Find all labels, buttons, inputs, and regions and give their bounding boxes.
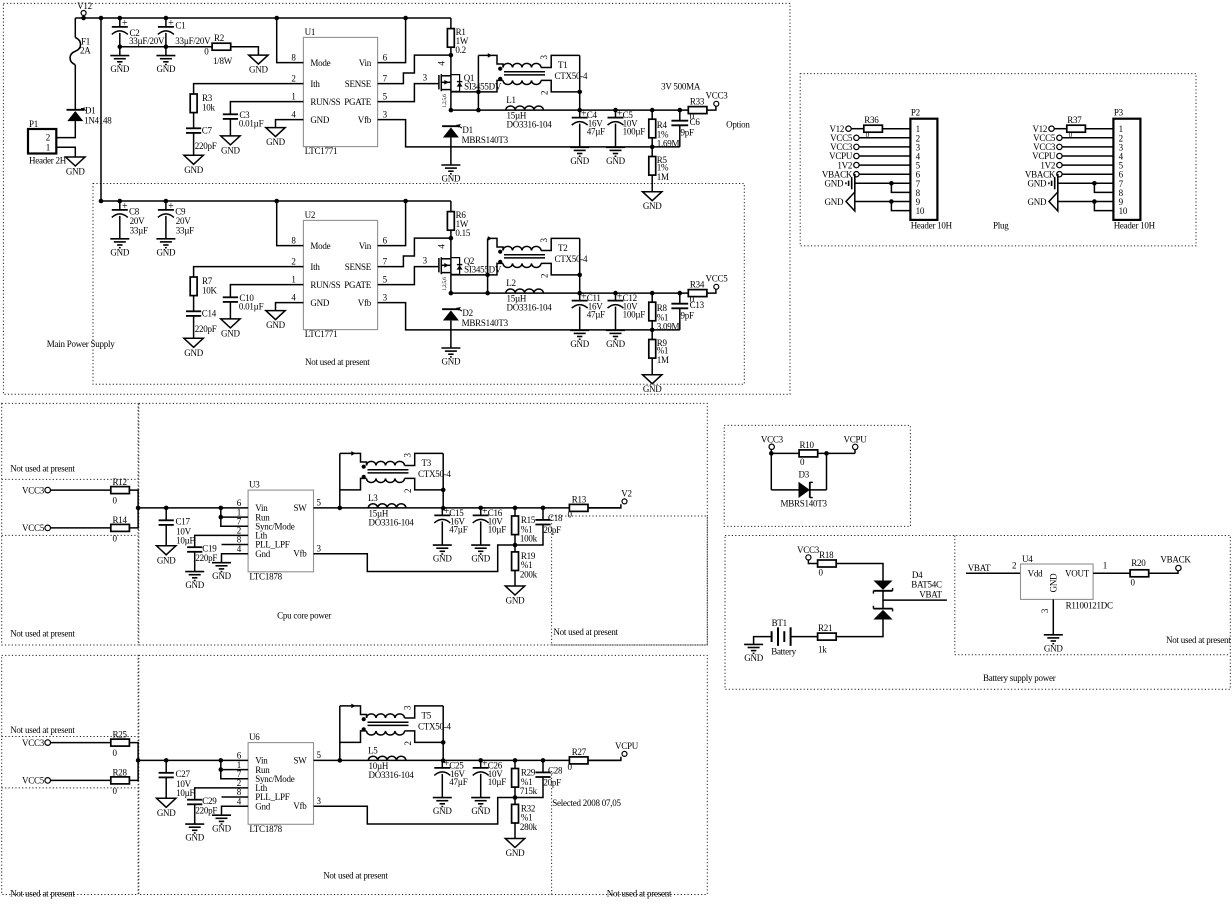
- svg-text:3: 3: [423, 73, 428, 83]
- wire C9 to ground: [165, 216, 167, 239]
- wire D4 common cathode node VBAT: [882, 591, 884, 609]
- capacitor C12: [613, 291, 618, 296]
- wire R10 to VCPU: [817, 452, 855, 454]
- wire GND pin to ground: [276, 303, 304, 311]
- ground under U6 Gnd pin: [212, 814, 231, 816]
- svg-text:GND: GND: [433, 806, 452, 816]
- svg-text:LTC1878: LTC1878: [249, 824, 282, 834]
- svg-text:R1100121DC: R1100121DC: [1066, 601, 1113, 611]
- wire R18 to D4: [836, 564, 883, 581]
- ground under C29: [185, 823, 204, 825]
- ground under battery: [744, 643, 763, 645]
- svg-text:R37: R37: [1067, 115, 1082, 125]
- svg-text:220pF: 220pF: [195, 806, 217, 816]
- svg-text:SENSE: SENSE: [345, 79, 372, 89]
- svg-text:10µF: 10µF: [488, 524, 506, 534]
- svg-text:GND: GND: [570, 339, 589, 349]
- svg-text:RUN/SS: RUN/SS: [310, 97, 340, 107]
- svg-text:LTC1771: LTC1771: [305, 146, 337, 156]
- svg-text:V12: V12: [77, 1, 92, 11]
- wire VCC5 to pin 2: [1062, 137, 1113, 139]
- svg-text:100k: 100k: [520, 533, 538, 543]
- wire battery to R21: [791, 636, 818, 638]
- resistor R10: [799, 450, 818, 457]
- svg-text:R25: R25: [113, 730, 128, 740]
- wire SW to output line: [314, 507, 621, 509]
- svg-text:47µF: 47µF: [449, 777, 467, 787]
- wire C4 to ground: [579, 124, 581, 147]
- transformer T2 core: [504, 254, 545, 256]
- transistor Q1 body stub with arrow: [441, 81, 451, 83]
- transformer T3 secondary left hook wire: [340, 478, 367, 490]
- svg-text:GND: GND: [221, 328, 240, 338]
- svg-text:0.01µF: 0.01µF: [239, 119, 264, 129]
- node VCC3 terminal at battery: [806, 555, 811, 560]
- wire C12 to ground: [615, 307, 617, 330]
- svg-text:CTX50-4: CTX50-4: [555, 71, 588, 81]
- resistor R37: [1067, 125, 1086, 132]
- transistor Q2 body stub with arrow: [441, 264, 451, 266]
- diode D4 BAT54C lower: [873, 608, 892, 610]
- wire C3 to ground: [229, 119, 231, 136]
- svg-text:2: 2: [403, 489, 413, 493]
- ground under P1: [66, 157, 85, 166]
- svg-text:PGATE: PGATE: [344, 280, 372, 290]
- wire Lth pin to C19: [195, 535, 248, 547]
- resistor R9: [651, 330, 653, 340]
- wire PLL_LPF stub: [222, 544, 249, 546]
- transformer T3 primary top hook wire: [340, 453, 367, 465]
- wire Ith pin to R3: [194, 84, 304, 94]
- wire C13 to feedback rail: [679, 308, 681, 330]
- svg-text:T3: T3: [422, 458, 432, 468]
- wire R5 to ground: [651, 175, 653, 192]
- transistor Q2 source stub: [441, 272, 451, 274]
- svg-text:VCPU: VCPU: [843, 435, 867, 445]
- transformer T1 secondary winding: [503, 80, 541, 84]
- svg-text:2A: 2A: [80, 46, 91, 56]
- capacitor C7: [186, 127, 201, 129]
- svg-text:2: 2: [46, 133, 50, 143]
- svg-text:U3: U3: [249, 480, 260, 490]
- svg-text:Not used at present: Not used at present: [10, 629, 75, 639]
- wire VCC3 branch down to D3: [770, 453, 772, 490]
- wire R8 to feedback node: [651, 321, 653, 330]
- svg-text:L5: L5: [368, 746, 378, 756]
- svg-text:3: 3: [403, 453, 413, 458]
- svg-text:Mode: Mode: [310, 58, 330, 68]
- channel 2 dashed border: [93, 184, 744, 385]
- ground under R2: [249, 55, 268, 64]
- wire D1 to P1 pin 2: [56, 121, 75, 138]
- resistor R6: [447, 212, 454, 231]
- wire input node to Vin: [138, 507, 248, 509]
- wire SW to output line: [314, 759, 621, 761]
- wire V12 rail U1 section: [75, 17, 451, 19]
- svg-text:R13: R13: [572, 495, 587, 505]
- wire C5 to ground: [615, 124, 617, 147]
- transformer T2 right edge wire: [579, 238, 581, 293]
- ground under C5: [606, 146, 625, 148]
- svg-text:L2: L2: [506, 278, 516, 288]
- wire R9 to ground: [651, 358, 653, 375]
- svg-text:GND: GND: [442, 174, 461, 184]
- svg-text:10K: 10K: [202, 285, 218, 295]
- svg-text:2: 2: [1012, 561, 1016, 571]
- svg-text:GND: GND: [66, 167, 85, 177]
- svg-text:GND: GND: [266, 137, 285, 147]
- transformer T5 core: [368, 721, 409, 723]
- svg-text:GND: GND: [471, 806, 490, 816]
- wire R3 to C7: [193, 113, 195, 129]
- capacitor C11: [579, 293, 581, 301]
- svg-text:Gnd: Gnd: [255, 549, 270, 559]
- wire Lth pin to C29: [195, 788, 248, 800]
- svg-text:GND: GND: [266, 320, 285, 330]
- svg-text:0.01µF: 0.01µF: [239, 302, 264, 312]
- svg-text:VCC3: VCC3: [797, 545, 820, 555]
- svg-text:DO3316-104: DO3316-104: [369, 518, 415, 528]
- wire Q2 source to transformer: [451, 274, 488, 276]
- wire R32 to ground: [514, 823, 516, 839]
- svg-text:R27: R27: [572, 747, 587, 757]
- svg-text:GND: GND: [643, 384, 662, 394]
- svg-text:VCC5: VCC5: [22, 776, 45, 786]
- wire V12 feed to channel 2: [100, 18, 102, 201]
- ground (triangle) at P3 pin 9: [1049, 192, 1058, 211]
- svg-text:GND: GND: [212, 824, 231, 834]
- transformer T5 pin 3 wire: [405, 706, 444, 718]
- svg-text:GND: GND: [433, 554, 452, 564]
- wire Vfb feedback rail: [378, 303, 680, 330]
- transformer T3 core: [368, 469, 409, 471]
- svg-text:0.15: 0.15: [455, 228, 471, 238]
- capacitor C16: [478, 506, 483, 511]
- svg-text:0: 0: [690, 295, 695, 305]
- transformer T1 right edge wire: [579, 55, 581, 110]
- transformer T2 secondary winding: [503, 263, 541, 267]
- svg-text:C9: C9: [175, 206, 186, 216]
- svg-text:GND: GND: [744, 653, 763, 663]
- wire VBACK to pin 6: [859, 173, 910, 175]
- wire R13 to V2 terminal: [588, 504, 621, 508]
- bottom inner dashed left edge: [551, 771, 553, 895]
- svg-text:Vfb: Vfb: [293, 801, 307, 811]
- wire RUN/SS pin to C3: [230, 102, 303, 115]
- svg-text:VCC5: VCC5: [22, 523, 45, 533]
- battery BT1: [771, 631, 773, 642]
- resistor R36: [864, 125, 883, 132]
- wire V12 rail U2 section: [101, 200, 451, 202]
- svg-text:10k: 10k: [202, 102, 216, 112]
- svg-text:BT1: BT1: [772, 618, 787, 628]
- ground under C25: [433, 797, 452, 799]
- resistor R3: [190, 94, 197, 113]
- svg-text:1: 1: [46, 143, 50, 153]
- svg-text:47µF: 47µF: [587, 310, 605, 320]
- svg-text:GND: GND: [157, 247, 176, 257]
- capacitor C2: [119, 18, 121, 27]
- op-amp U3 LTC1878 box: [248, 490, 313, 572]
- middle inner not used dashed box: [552, 516, 708, 645]
- svg-text:1M: 1M: [657, 355, 669, 365]
- svg-text:6: 6: [383, 52, 388, 62]
- capacitor C29: [187, 799, 202, 801]
- svg-text:T2: T2: [558, 243, 568, 253]
- transistor Q1 gate: [438, 75, 440, 89]
- transformer T1 pin 3 wire: [541, 55, 580, 67]
- svg-text:33µF/20V: 33µF/20V: [175, 36, 211, 46]
- svg-text:33µF: 33µF: [130, 226, 148, 236]
- svg-text:P3: P3: [1114, 108, 1124, 118]
- svg-text:0: 0: [204, 46, 209, 56]
- svg-text:R2: R2: [214, 33, 224, 43]
- svg-text:DO3316-104: DO3316-104: [507, 303, 553, 313]
- svg-text:PGATE: PGATE: [344, 97, 372, 107]
- svg-text:Vin: Vin: [359, 58, 372, 68]
- ground (bar) at P2 pin 7: [854, 174, 856, 193]
- wire C7 to ground: [193, 133, 195, 155]
- ground under C1: [156, 55, 175, 57]
- ground under C3: [221, 136, 240, 145]
- ground under R32: [505, 839, 524, 848]
- svg-text:280k: 280k: [520, 822, 538, 832]
- svg-text:3: 3: [383, 109, 388, 119]
- svg-text:10: 10: [916, 206, 925, 216]
- svg-text:3: 3: [539, 238, 549, 243]
- wire U4 VOUT to R20: [1093, 572, 1130, 574]
- diode D1 MBRS140T3: [442, 125, 460, 127]
- ground under U3 Gnd pin: [212, 562, 231, 564]
- wire VCPU branch down to D3: [826, 453, 828, 490]
- svg-text:GND: GND: [157, 808, 176, 818]
- wire R29 to feedback node: [514, 787, 516, 797]
- svg-text:GND: GND: [184, 348, 203, 358]
- node 1V2 terminal at P2: [854, 162, 859, 167]
- svg-text:VCC3: VCC3: [22, 485, 45, 495]
- wire R12/R14 junction: [129, 490, 138, 528]
- svg-text:GND: GND: [184, 165, 203, 175]
- svg-text:V2: V2: [621, 488, 632, 498]
- svg-text:GND: GND: [825, 179, 844, 189]
- wire P1 pin 1 to ground: [56, 147, 75, 157]
- wire VCC3 to R12: [51, 489, 111, 491]
- wire V12 to R36: [851, 128, 864, 130]
- resistor R28: [111, 777, 130, 784]
- svg-text:%1: %1: [657, 345, 669, 355]
- node VCC5 terminal at P3: [1057, 135, 1062, 140]
- transformer T1 primary winding: [503, 63, 541, 67]
- node VCC3 terminal at D3: [769, 444, 774, 449]
- wire SENSE pin to Q1 drain: [378, 55, 451, 84]
- svg-text:4: 4: [291, 292, 296, 302]
- wire C2 to ground: [119, 33, 121, 56]
- node VCC3 terminal: [45, 740, 51, 746]
- resistor R33: [688, 107, 707, 114]
- transistor Q1 source stub: [441, 89, 451, 91]
- svg-text:BAT54C: BAT54C: [911, 580, 942, 590]
- svg-text:10µF: 10µF: [488, 777, 506, 787]
- svg-text:GND: GND: [1044, 643, 1063, 653]
- capacitor C8: [119, 201, 121, 210]
- wire VCC3 to R18: [808, 560, 817, 564]
- svg-text:VOUT: VOUT: [1065, 568, 1090, 578]
- inductor L1 DO3316-104: [506, 106, 544, 110]
- svg-text:GND: GND: [110, 64, 129, 74]
- transistor Q2 body diode: [451, 258, 460, 275]
- svg-text:U4: U4: [1022, 554, 1033, 564]
- bottom left dashed box: [2, 655, 138, 894]
- svg-text:GND: GND: [606, 339, 625, 349]
- svg-text:2: 2: [403, 741, 413, 745]
- D3 dashed border: [724, 425, 910, 526]
- ground under C27: [157, 798, 176, 807]
- wire VCC3 to R10: [770, 450, 772, 454]
- ground under C9: [156, 238, 175, 240]
- ground under R5: [643, 192, 662, 201]
- wire VCPU to pin 4: [859, 155, 910, 157]
- wire C16 to ground: [480, 521, 482, 544]
- wire Vin to Run and Sync/Mode: [221, 508, 248, 526]
- svg-text:1: 1: [1103, 561, 1107, 571]
- wire C19 to ground: [194, 552, 196, 572]
- svg-text:Selected 2008 07,05: Selected 2008 07,05: [552, 798, 621, 808]
- transformer T5 secondary winding: [367, 731, 405, 735]
- svg-text:U2: U2: [305, 210, 316, 220]
- svg-text:+: +: [122, 18, 128, 29]
- svg-text:D2: D2: [462, 308, 473, 318]
- wire V12 to rail: [83, 16, 85, 19]
- ground under C2: [110, 55, 129, 57]
- svg-text:Not used at present: Not used at present: [553, 627, 618, 637]
- capacitor C15: [441, 508, 443, 516]
- svg-text:10: 10: [1119, 206, 1128, 216]
- wire gnd to P3 pin 7: [1058, 182, 1114, 184]
- wire R4 to feedback node: [651, 138, 653, 147]
- transistor Q2 drain stub: [441, 258, 451, 260]
- wire VCC5 to pin 2: [859, 137, 910, 139]
- transformer T2 left vertical wire: [487, 238, 489, 293]
- svg-text:VCC5: VCC5: [705, 273, 728, 283]
- wire switch node output line: [451, 292, 688, 294]
- node VCC3 terminal at P3: [1057, 144, 1062, 149]
- resistor R2: [212, 43, 231, 50]
- svg-text:Not used at present: Not used at present: [10, 464, 75, 474]
- svg-text:1: 1: [291, 91, 295, 101]
- svg-text:VCC3: VCC3: [705, 90, 728, 100]
- svg-text:R36: R36: [864, 115, 879, 125]
- svg-text:1N4148: 1N4148: [84, 116, 112, 126]
- wire R34 to VCC5 terminal: [707, 289, 716, 293]
- wire C1 to ground: [165, 33, 167, 56]
- svg-text:Header 2H: Header 2H: [29, 156, 67, 166]
- transformer T1 core: [504, 71, 545, 73]
- wire Vin to Run and Sync/Mode: [221, 760, 248, 778]
- capacitor C3: [223, 113, 238, 115]
- svg-text:D1: D1: [462, 125, 473, 135]
- svg-text:D1: D1: [85, 106, 96, 116]
- transformer T2 pin 3 wire: [541, 238, 580, 250]
- svg-text:SENSE: SENSE: [345, 262, 372, 272]
- svg-text:+: +: [168, 201, 174, 212]
- connector P1 Header 2H: [28, 129, 56, 154]
- svg-text:1: 1: [291, 274, 295, 284]
- node VBACK terminal: [1176, 565, 1181, 570]
- svg-text:220pF: 220pF: [195, 553, 217, 563]
- svg-text:C14: C14: [202, 308, 217, 318]
- svg-text:Battery supply power: Battery supply power: [983, 673, 1056, 683]
- svg-text:C7: C7: [202, 125, 213, 135]
- capacitor C26: [478, 758, 483, 763]
- svg-text:100µF: 100µF: [623, 310, 646, 320]
- svg-text:R33: R33: [690, 97, 705, 107]
- svg-text:Not used at present: Not used at present: [323, 871, 388, 881]
- wire P2 pin 9 to pin 10: [891, 202, 910, 211]
- svg-text:SW: SW: [294, 503, 308, 513]
- svg-text:GND: GND: [221, 145, 240, 155]
- svg-text:20V: 20V: [176, 216, 192, 226]
- ground under R9: [643, 375, 662, 384]
- ground under C14: [184, 338, 203, 347]
- transformer T3 pin 3 wire: [405, 453, 444, 465]
- wire 1V2 to pin 5: [1062, 164, 1113, 166]
- wire GND pin to ground: [276, 120, 304, 128]
- svg-text:MBRS140T3: MBRS140T3: [781, 499, 828, 509]
- capacitor C10: [223, 296, 238, 298]
- wire Q1 source down to switch node: [450, 92, 452, 110]
- svg-text:U1: U1: [305, 27, 316, 37]
- ground (bar) at P3 pin 7: [1057, 174, 1059, 193]
- svg-text:220pF: 220pF: [195, 324, 217, 334]
- capacitor C1: [165, 18, 167, 27]
- svg-text:Not used at present: Not used at present: [1166, 635, 1231, 645]
- svg-text:CTX50-4: CTX50-4: [418, 721, 451, 731]
- wire VBAT to U4: [966, 572, 1021, 574]
- svg-text:C29: C29: [202, 796, 217, 806]
- wire R37 to pin 1: [1085, 128, 1113, 130]
- svg-text:GND: GND: [643, 201, 662, 211]
- node V12 terminal at P3: [1049, 126, 1054, 131]
- wire VCC5 to R28: [51, 779, 111, 781]
- svg-text:200k: 200k: [520, 569, 538, 579]
- svg-text:CTX50-4: CTX50-4: [555, 254, 588, 264]
- wire R15 to feedback node: [514, 535, 516, 545]
- wire 1V2 to pin 5: [859, 164, 910, 166]
- wire R33 to VCC3 terminal: [707, 106, 716, 110]
- svg-text:4: 4: [436, 61, 446, 66]
- wire P3 pin 7 to pin 8: [1094, 183, 1113, 192]
- svg-text:3: 3: [423, 256, 428, 266]
- transformer T1 pin 2 wire: [541, 80, 580, 92]
- svg-text:1%: 1%: [657, 162, 669, 172]
- svg-text:VBAT: VBAT: [919, 589, 942, 599]
- node VCPU terminal at D3: [853, 444, 858, 449]
- resistor R34: [688, 290, 707, 297]
- svg-text:8: 8: [291, 52, 296, 62]
- svg-text:0: 0: [690, 112, 695, 122]
- wire C26 to ground: [480, 774, 482, 797]
- svg-text:C17: C17: [176, 516, 191, 526]
- transformer T5 primary top hook wire: [340, 706, 367, 718]
- svg-text:Vdd: Vdd: [1028, 568, 1043, 578]
- svg-text:Vin: Vin: [359, 241, 372, 251]
- wire C15 to ground: [441, 521, 443, 544]
- connector P2 Header 10H box: [910, 119, 937, 220]
- svg-text:1,2,5,6: 1,2,5,6: [442, 277, 448, 291]
- ground under R19: [505, 586, 524, 595]
- node VCPU terminal at P2: [854, 153, 859, 158]
- ground under C26: [471, 797, 490, 799]
